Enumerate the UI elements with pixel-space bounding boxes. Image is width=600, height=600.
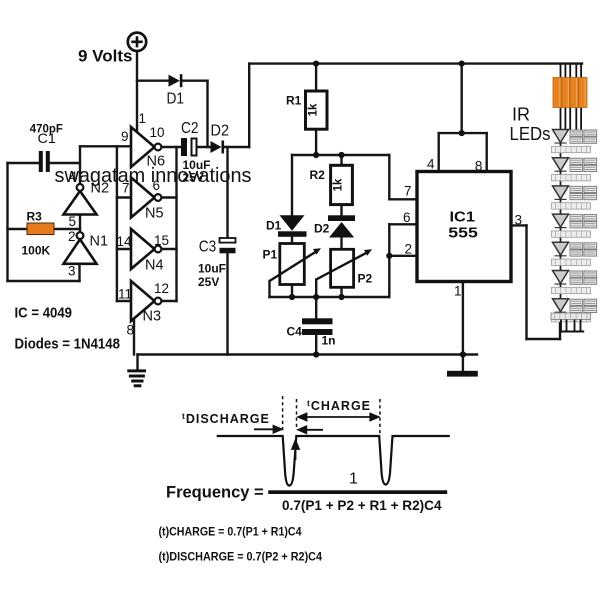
svg-text:7: 7 <box>122 181 130 196</box>
svg-text:C2: C2 <box>181 120 199 137</box>
svg-text:9: 9 <box>121 129 129 144</box>
svg-text:Diodes = 1N4148: Diodes = 1N4148 <box>15 335 121 352</box>
svg-text:IC1: IC1 <box>450 210 476 226</box>
svg-text:10: 10 <box>150 125 165 140</box>
svg-text:0.7(P1 + P2 + R1 + R2)C4: 0.7(P1 + P2 + R1 + R2)C4 <box>282 497 442 513</box>
svg-text:IC = 4049: IC = 4049 <box>15 305 73 322</box>
svg-text:2: 2 <box>405 242 413 257</box>
svg-text:N1: N1 <box>90 234 109 250</box>
svg-text:6: 6 <box>153 178 161 193</box>
svg-text:P1: P1 <box>263 248 278 262</box>
svg-text:15: 15 <box>154 233 169 248</box>
svg-text:D1: D1 <box>266 219 282 233</box>
svg-text:D1: D1 <box>167 90 185 107</box>
svg-text:2: 2 <box>68 229 76 244</box>
svg-text:N2: N2 <box>91 181 110 197</box>
svg-text:25V: 25V <box>198 275 219 289</box>
svg-text:12: 12 <box>154 281 169 296</box>
svg-text:D2: D2 <box>211 123 230 140</box>
svg-text:5: 5 <box>69 214 77 229</box>
svg-text:R1: R1 <box>286 94 302 108</box>
svg-text:(t)CHARGE = 0.7(P1 + R1)C4: (t)CHARGE = 0.7(P1 + R1)C4 <box>159 527 303 539</box>
svg-text:N3: N3 <box>143 309 162 325</box>
svg-text:8: 8 <box>127 323 135 338</box>
svg-text:7: 7 <box>404 184 412 199</box>
svg-text:8: 8 <box>475 159 483 174</box>
svg-text:14: 14 <box>117 234 133 249</box>
svg-text:IR: IR <box>512 105 530 125</box>
svg-text:C4: C4 <box>287 324 303 338</box>
svg-text:N5: N5 <box>145 206 164 222</box>
svg-text:(t)DISCHARGE = 0.7(P2 + R2)C4: (t)DISCHARGE = 0.7(P2 + R2)C4 <box>159 552 323 564</box>
svg-text:D2: D2 <box>314 222 330 236</box>
svg-text:1k: 1k <box>308 103 320 116</box>
svg-text:C3: C3 <box>199 239 217 256</box>
svg-text:R2: R2 <box>310 168 326 182</box>
svg-text:R3: R3 <box>27 210 43 224</box>
svg-text:555: 555 <box>448 226 478 242</box>
svg-text:4: 4 <box>70 169 78 184</box>
svg-text:LEDs: LEDs <box>510 124 551 144</box>
svg-text:3: 3 <box>515 213 523 228</box>
svg-text:N6: N6 <box>147 154 166 170</box>
svg-text:N4: N4 <box>145 258 164 274</box>
svg-text:10uF: 10uF <box>198 262 226 276</box>
svg-text:3: 3 <box>68 264 76 279</box>
svg-text:Frequency =: Frequency = <box>166 484 264 502</box>
svg-text:4: 4 <box>427 157 435 172</box>
svg-text:1n: 1n <box>322 334 336 348</box>
svg-text:tCHARGE: tCHARGE <box>307 398 371 413</box>
svg-text:1: 1 <box>454 284 462 299</box>
svg-text:470pF: 470pF <box>30 122 63 136</box>
svg-text:tDISCHARGE: tDISCHARGE <box>182 411 270 426</box>
svg-text:100K: 100K <box>22 244 51 258</box>
svg-text:1: 1 <box>349 471 358 488</box>
svg-text:11: 11 <box>118 287 132 302</box>
svg-text:6: 6 <box>403 210 411 225</box>
svg-text:1k: 1k <box>333 178 345 191</box>
svg-text:9 Volts: 9 Volts <box>78 47 132 66</box>
svg-text:1: 1 <box>139 111 147 126</box>
svg-text:P2: P2 <box>358 272 373 286</box>
svg-text:25V: 25V <box>183 171 204 185</box>
